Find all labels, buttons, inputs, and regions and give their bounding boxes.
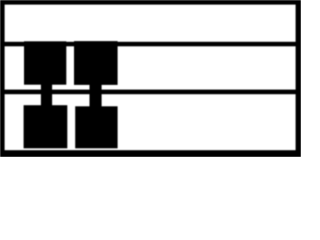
component block A2 (upper-right square) [74,41,118,85]
wire: lower horizontal rail [2,90,299,95]
frame bottom border [0,150,301,157]
frame left border [0,0,5,157]
wire: vertical stem 1 [41,84,52,108]
component block B2 (lower-right square) [75,106,117,148]
component block B1 (lower-left square) [24,105,68,148]
wire: upper horizontal rail [2,42,299,47]
wire: vertical stem 2 [90,84,102,108]
frame top border [0,0,301,5]
component block A1 (upper-left square) [24,41,66,84]
frame right border [296,0,301,157]
